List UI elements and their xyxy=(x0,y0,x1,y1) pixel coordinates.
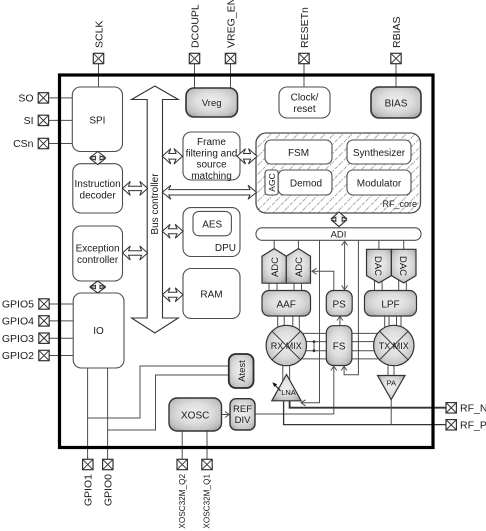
svg-text:DAC: DAC xyxy=(397,256,408,276)
pin DCOUPL xyxy=(189,4,201,64)
Exception controller block xyxy=(73,226,123,281)
svg-text:ADI: ADI xyxy=(331,230,347,241)
AAF block xyxy=(262,291,311,317)
pin GPIO5 xyxy=(2,299,49,311)
wire ADI column to FS bottom xyxy=(344,240,358,374)
AGC block xyxy=(265,170,278,195)
wire VREG_EN to Vreg xyxy=(230,64,232,88)
wire AAF to RXMIX 4 lines xyxy=(278,316,300,334)
svg-text:XOSC32M_Q2: XOSC32M_Q2 xyxy=(178,474,187,529)
node junction dots xyxy=(313,340,316,343)
wire GPIO5 to IO xyxy=(49,303,73,305)
wire SCLK to SPI xyxy=(98,64,100,87)
arrow Exception controller-IO xyxy=(90,281,106,293)
pin RF_P xyxy=(446,420,486,432)
ADC 1 xyxy=(262,249,286,284)
svg-text:PA: PA xyxy=(387,379,396,388)
svg-text:Clock/: Clock/ xyxy=(291,93,319,104)
svg-text:Atest: Atest xyxy=(237,360,248,382)
svg-text:GPIO3: GPIO3 xyxy=(2,333,34,345)
DAC 2 xyxy=(391,249,416,283)
wire GPIO4 to IO xyxy=(49,320,73,322)
arrow SPI-Instruction decoder xyxy=(90,152,106,165)
svg-text:Exception: Exception xyxy=(76,244,120,255)
SPI block xyxy=(72,87,122,152)
pin RBIAS xyxy=(391,16,403,63)
wire RESETn to Clock/reset xyxy=(303,64,305,87)
svg-text:PS: PS xyxy=(333,300,347,311)
wire ADI to ADC1 xyxy=(273,240,275,250)
wire XOSC to REF DIV arrow xyxy=(222,414,229,416)
pin SO xyxy=(18,93,48,105)
svg-text:SCLK: SCLK xyxy=(93,21,105,48)
pin SI xyxy=(24,115,49,127)
svg-text:RF_N: RF_N xyxy=(460,403,486,415)
svg-text:LPF: LPF xyxy=(381,300,399,311)
wire GPIO2 to IO xyxy=(49,355,73,357)
wire DAC2 to LPF xyxy=(399,277,407,291)
wire ADI-PS double arrow xyxy=(344,242,346,290)
svg-text:BIAS: BIAS xyxy=(385,99,408,110)
svg-text:GPIO1: GPIO1 xyxy=(82,474,94,506)
wire RBIAS to BIAS xyxy=(395,64,397,87)
PS block xyxy=(326,291,352,317)
DAC 1 xyxy=(367,249,392,283)
svg-text:FS: FS xyxy=(333,342,346,353)
ADC 2 xyxy=(286,249,310,284)
svg-text:GPIO2: GPIO2 xyxy=(2,350,34,362)
RAM block xyxy=(183,269,240,319)
Synthesizer block xyxy=(347,140,411,164)
LNA amplifier xyxy=(272,375,301,401)
PA amplifier xyxy=(378,376,406,400)
svg-text:Frame: Frame xyxy=(197,137,226,148)
wire Atest to GPIO0 column xyxy=(108,375,229,430)
svg-text:AAF: AAF xyxy=(276,300,295,311)
svg-text:XOSC32M_Q1: XOSC32M_Q1 xyxy=(203,474,212,529)
svg-text:CSn: CSn xyxy=(13,138,34,150)
wire LNA to RF_N xyxy=(290,401,446,408)
svg-text:AES: AES xyxy=(202,220,222,231)
pin RF_N xyxy=(446,403,486,415)
svg-text:RF_P: RF_P xyxy=(460,420,486,432)
svg-text:DAC: DAC xyxy=(372,256,383,276)
arrow bus-Exception controller xyxy=(123,246,148,260)
svg-text:source: source xyxy=(196,160,226,171)
arrow bus-RAM xyxy=(162,288,183,302)
svg-text:GPIO4: GPIO4 xyxy=(2,316,34,328)
AES block xyxy=(193,211,231,235)
svg-text:FSM: FSM xyxy=(288,148,309,159)
pin CSn xyxy=(13,138,49,150)
svg-text:ADC: ADC xyxy=(294,257,305,277)
LNA gain arrow xyxy=(274,384,281,391)
svg-text:XOSC: XOSC xyxy=(181,411,209,422)
svg-text:GPIO5: GPIO5 xyxy=(2,299,34,311)
wire XOSC to XOSC32M_Q1 pin xyxy=(206,431,208,459)
LPF block xyxy=(365,291,417,317)
svg-text:filtering and: filtering and xyxy=(186,148,238,159)
Atest block xyxy=(229,354,254,388)
pin VREG_EN xyxy=(225,0,237,64)
TXMIX mixer xyxy=(374,325,414,365)
svg-text:matching: matching xyxy=(191,171,232,182)
svg-text:decoder: decoder xyxy=(80,191,117,202)
svg-text:Bus controller: Bus controller xyxy=(150,173,161,235)
XOSC block xyxy=(169,398,222,431)
FSM block xyxy=(265,140,332,164)
svg-text:REF: REF xyxy=(233,404,252,415)
wire PA tip down xyxy=(390,399,392,425)
svg-text:IO: IO xyxy=(93,326,104,337)
wire ADI to ADC2 xyxy=(297,240,299,250)
svg-text:controller: controller xyxy=(77,255,119,266)
svg-text:SO: SO xyxy=(18,93,33,105)
svg-text:DIV: DIV xyxy=(235,415,252,426)
wire DCOUPL to Vreg xyxy=(194,64,196,88)
chip outer border xyxy=(60,75,434,448)
Demod block xyxy=(278,170,332,195)
arrow RF_core-ADI xyxy=(331,212,347,227)
wire IO to GPIO0 pin xyxy=(107,368,109,459)
wire FS to PS arrow xyxy=(339,317,341,326)
wire ADI to DAC2 xyxy=(403,240,405,250)
svg-text:RAM: RAM xyxy=(200,290,222,301)
svg-text:SI: SI xyxy=(24,115,34,127)
svg-text:LNA: LNA xyxy=(281,388,296,397)
pin SCLK xyxy=(93,21,105,64)
FS block xyxy=(326,326,352,366)
Clock/reset block xyxy=(279,87,330,118)
wire PS to ADC2 arrow xyxy=(313,271,334,290)
svg-text:Modulator: Modulator xyxy=(357,179,402,190)
Instruction decoder block xyxy=(73,164,123,213)
svg-text:ADC: ADC xyxy=(270,257,281,277)
arrow bus-RF_core long xyxy=(162,185,256,199)
wire DAC1 to LPF xyxy=(375,277,383,291)
arrow bus-Instruction decoder xyxy=(123,181,148,195)
wire RXMIX to LNA pair xyxy=(283,360,290,384)
pin GPIO2 xyxy=(2,350,49,362)
wire junction segment xyxy=(313,342,315,351)
pin GPIO1 xyxy=(82,459,94,506)
svg-text:RX MIX: RX MIX xyxy=(271,341,302,351)
svg-text:Instruction: Instruction xyxy=(75,179,121,190)
svg-text:DCOUPL: DCOUPL xyxy=(189,4,201,48)
wire SO to SPI xyxy=(49,97,73,99)
svg-text:RESETn: RESETn xyxy=(299,7,311,48)
svg-text:VREG_EN: VREG_EN xyxy=(225,0,237,48)
wire LNA to RF_P xyxy=(284,401,446,425)
wire Atest to GPIO1 column xyxy=(88,366,229,418)
wire LPF to TXMIX 4 lines xyxy=(385,316,401,334)
wire ADC1 to AAF xyxy=(269,282,277,291)
BIAS block xyxy=(371,87,421,118)
svg-text:Synthesizer: Synthesizer xyxy=(353,148,406,159)
svg-text:AGC: AGC xyxy=(267,173,277,191)
svg-text:RF_core: RF_core xyxy=(382,199,417,209)
wire TXMIX to PA pair xyxy=(388,360,394,378)
svg-text:Vreg: Vreg xyxy=(202,98,222,109)
svg-text:RBIAS: RBIAS xyxy=(391,16,403,48)
svg-text:DPU: DPU xyxy=(215,243,236,254)
Frame filtering block xyxy=(183,132,240,180)
svg-text:TX MIX: TX MIX xyxy=(379,341,409,351)
wire REF DIV to FS bottom xyxy=(255,367,334,414)
pin XOSC32M_Q1 xyxy=(202,459,212,528)
arrow bus-DPU xyxy=(162,224,183,238)
wire XOSC to XOSC32M_Q2 pin xyxy=(181,431,183,459)
IO block xyxy=(73,293,124,368)
svg-text:Demod: Demod xyxy=(290,179,322,190)
wire CSn to SPI xyxy=(49,143,73,145)
wire AGC control from ADI to LNA arrow xyxy=(302,240,320,402)
ADI block xyxy=(256,228,421,241)
Vreg block xyxy=(186,88,238,117)
pin GPIO4 xyxy=(2,316,49,328)
wire IO to GPIO1 pin xyxy=(87,368,89,459)
pin XOSC32M_Q2 xyxy=(177,459,187,528)
svg-text:SPI: SPI xyxy=(89,116,105,127)
svg-text:GPIO0: GPIO0 xyxy=(102,474,114,506)
wire RXMIX-FS-TXMIX horizontal lines xyxy=(288,333,393,359)
RF_core hatched region xyxy=(256,133,421,213)
Modulator block xyxy=(347,170,411,195)
wire GPIO3 to IO xyxy=(49,337,73,339)
pin RESETn xyxy=(299,7,311,64)
svg-text:reset: reset xyxy=(293,104,315,115)
pin GPIO0 xyxy=(102,459,114,506)
wire SI to SPI xyxy=(49,119,73,121)
wire ADI to DAC1 xyxy=(378,240,380,250)
DPU block xyxy=(183,208,240,257)
arrow Frame filtering-RF_core xyxy=(237,149,257,164)
RXMIX mixer xyxy=(266,325,306,365)
REF DIV block xyxy=(230,399,255,430)
pin GPIO3 xyxy=(2,333,49,345)
bus controller big arrow xyxy=(132,86,179,333)
arrow bus-Frame filtering xyxy=(162,149,182,164)
wire ADC2 to AAF xyxy=(294,282,302,291)
